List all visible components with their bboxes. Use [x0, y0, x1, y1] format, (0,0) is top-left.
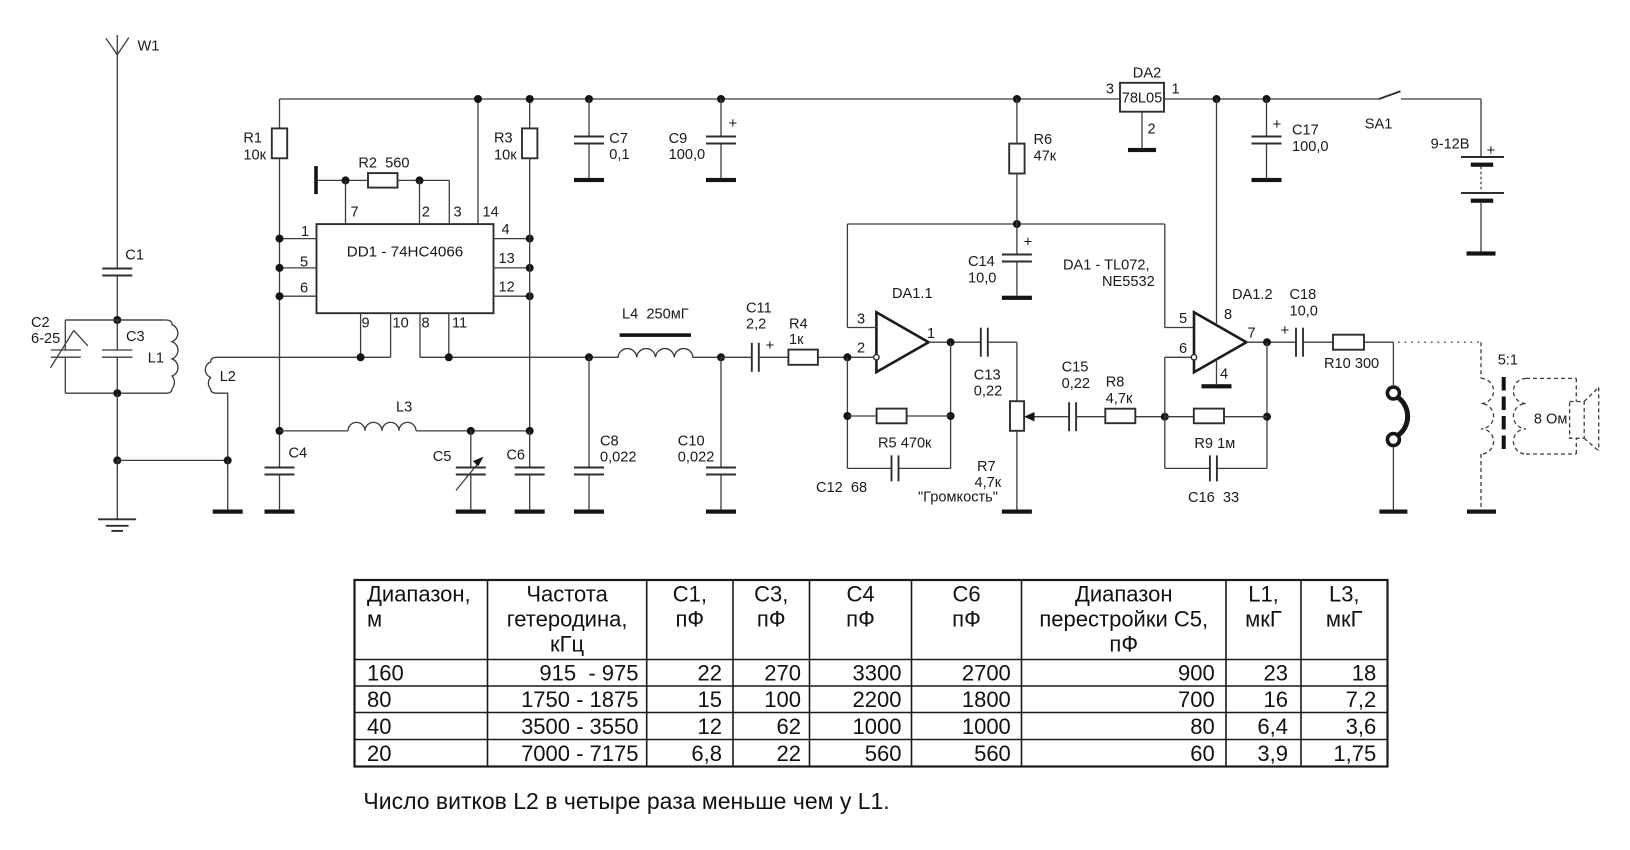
- svg-text:700: 700: [1178, 687, 1215, 712]
- svg-text:3: 3: [454, 205, 462, 221]
- junction bias C14: [1013, 220, 1021, 228]
- svg-text:0,1: 0,1: [609, 147, 629, 163]
- wire R1 top: [279, 99, 281, 128]
- svg-text:C2: C2: [31, 315, 50, 331]
- svg-text:5:1: 5:1: [1498, 353, 1518, 369]
- ground bar (L2): [213, 510, 243, 514]
- svg-text:мкГ: мкГ: [1245, 607, 1282, 632]
- wire C16 row: [1164, 417, 1166, 469]
- svg-text:100,0: 100,0: [669, 147, 706, 163]
- svg-text:Частота: Частота: [526, 582, 608, 607]
- svg-text:3500 - 3550: 3500 - 3550: [521, 714, 638, 739]
- ground bar (C8): [574, 510, 604, 514]
- svg-text:C12 68: C12 68: [816, 480, 867, 496]
- capacitor C12: [891, 455, 893, 481]
- node tank bottom: [113, 389, 121, 397]
- speaker BA1 8 Ом: [1570, 387, 1599, 451]
- table header: [367, 582, 1363, 657]
- wire pin 10: [390, 313, 392, 357]
- svg-text:80: 80: [1190, 714, 1214, 739]
- svg-text:9-12В: 9-12В: [1431, 137, 1470, 153]
- svg-text:2: 2: [1148, 122, 1156, 138]
- svg-text:40: 40: [367, 714, 391, 739]
- capacitor C8: [574, 357, 604, 509]
- table grid: [355, 580, 1388, 767]
- svg-text:C7: C7: [609, 131, 628, 147]
- wire pin 5: [280, 267, 317, 269]
- svg-text:+: +: [766, 337, 775, 354]
- svg-text:L3,: L3,: [1329, 582, 1360, 607]
- svg-text:R9 1м: R9 1м: [1194, 436, 1235, 452]
- svg-text:900: 900: [1178, 661, 1215, 686]
- svg-text:С6: С6: [952, 582, 980, 607]
- svg-text:270: 270: [764, 661, 801, 686]
- resistor R2: [368, 173, 398, 188]
- ground bar (C4): [265, 510, 295, 514]
- junction DA1.2 inv node: [1161, 413, 1169, 421]
- wire tank to ground row: [116, 393, 118, 460]
- junction R9 right: [1263, 413, 1271, 421]
- svg-text:Диапазон: Диапазон: [1075, 582, 1173, 607]
- svg-text:5: 5: [1179, 311, 1187, 327]
- svg-text:560: 560: [865, 741, 902, 766]
- wire pin 1: [280, 238, 317, 240]
- resistor R4: [788, 350, 818, 365]
- svg-text:C13: C13: [974, 368, 1001, 384]
- resistor R9: [1194, 409, 1224, 424]
- inductor L4: [589, 349, 721, 358]
- ground bar (battery): [1467, 251, 1496, 255]
- svg-text:2,2: 2,2: [746, 317, 766, 333]
- junction rail R6: [1013, 95, 1021, 103]
- wire inv node down: [846, 357, 848, 468]
- wire C11 to R4: [759, 356, 789, 358]
- svg-text:8: 8: [1224, 307, 1232, 323]
- wire bias to pin3: [846, 224, 848, 328]
- capacitor C15: [1068, 402, 1070, 431]
- wire antenna earth drop: [116, 460, 118, 519]
- ground bar (transformer): [1467, 510, 1496, 514]
- svg-text:C10: C10: [678, 434, 705, 450]
- capacitor C5 (variable): [456, 431, 486, 510]
- svg-text:R1: R1: [243, 130, 262, 146]
- svg-text:4: 4: [502, 222, 510, 238]
- junction pin4: [526, 235, 534, 243]
- ground bar (C10): [706, 510, 736, 514]
- antenna W1: [106, 35, 129, 269]
- wire DA2 pin2: [1141, 112, 1143, 148]
- inductor L1: [65, 320, 178, 393]
- svg-text:62: 62: [777, 714, 801, 739]
- junction C8: [585, 353, 593, 361]
- op-amp DA1.1: [876, 312, 928, 372]
- svg-text:0,022: 0,022: [678, 450, 715, 466]
- capacitor C3: [102, 320, 132, 393]
- inductor L2: [205, 357, 360, 460]
- svg-text:DA1.2: DA1.2: [1232, 287, 1273, 303]
- svg-text:гетеродина,: гетеродина,: [507, 607, 628, 632]
- ground bar (C7): [574, 178, 604, 182]
- svg-text:DA1 - TL072,: DA1 - TL072,: [1063, 258, 1150, 274]
- svg-text:1: 1: [927, 326, 935, 342]
- svg-text:4: 4: [1220, 367, 1228, 383]
- wire C4 to L3: [280, 430, 349, 432]
- svg-text:16: 16: [1264, 687, 1288, 712]
- svg-text:кГц: кГц: [550, 632, 585, 657]
- resistor R3: [522, 128, 537, 158]
- junction C10: [717, 353, 725, 361]
- wire R8 to node: [1135, 416, 1165, 418]
- junction pin9: [357, 353, 365, 361]
- svg-text:22: 22: [698, 661, 722, 686]
- wire out down: [950, 342, 952, 468]
- svg-text:6: 6: [300, 281, 308, 297]
- svg-text:R6: R6: [1034, 132, 1053, 148]
- svg-text:0,22: 0,22: [974, 384, 1002, 400]
- op-amp DA1.2: [1194, 312, 1246, 372]
- wire pin 13: [494, 267, 530, 269]
- svg-text:1: 1: [301, 224, 309, 240]
- svg-text:С4: С4: [846, 582, 874, 607]
- svg-text:пФ: пФ: [1109, 632, 1138, 657]
- svg-text:3: 3: [1106, 81, 1114, 97]
- svg-text:L1,: L1,: [1248, 582, 1279, 607]
- svg-text:пФ: пФ: [676, 607, 705, 632]
- ground bar (DA2): [1128, 148, 1156, 152]
- transformer T1 primary: [1481, 342, 1494, 509]
- svg-text:1000: 1000: [962, 714, 1011, 739]
- svg-text:6: 6: [1179, 341, 1187, 357]
- svg-text:6,4: 6,4: [1257, 714, 1288, 739]
- junction pin11: [445, 353, 453, 361]
- wire pin 11: [448, 313, 450, 357]
- svg-text:пФ: пФ: [846, 607, 875, 632]
- earth ground (antenna): [98, 519, 136, 531]
- svg-text:160: 160: [367, 661, 404, 686]
- svg-text:9: 9: [362, 316, 370, 332]
- svg-text:14: 14: [483, 205, 499, 221]
- wire R5 row: [847, 415, 876, 417]
- ground bar (C5): [456, 510, 486, 514]
- svg-text:L4 250мГ: L4 250мГ: [622, 307, 689, 323]
- wire L2 top segment: [361, 356, 391, 358]
- svg-text:C1: C1: [125, 248, 144, 264]
- capacitor C11 (electrolytic): [751, 343, 753, 372]
- junction DA1.1 out: [947, 338, 955, 346]
- svg-text:L1: L1: [148, 350, 164, 366]
- junction rail pin8: [1213, 95, 1221, 103]
- capacitor C2 (trimmer): [51, 320, 88, 393]
- svg-text:80: 80: [367, 687, 391, 712]
- wire bias line: [847, 223, 1164, 225]
- inverting input circle DA1.1: [874, 355, 879, 360]
- svg-text:R10 300: R10 300: [1324, 356, 1379, 372]
- svg-text:1к: 1к: [789, 332, 804, 348]
- wire R4 to pin2 node: [818, 356, 874, 358]
- svg-text:C16 33: C16 33: [1188, 490, 1239, 506]
- inductor L3: [348, 422, 416, 431]
- junction DA1.2 out: [1263, 338, 1271, 346]
- svg-text:C17: C17: [1292, 123, 1319, 139]
- capacitor C9 (electrolytic): [706, 99, 736, 178]
- svg-text:100,0: 100,0: [1292, 139, 1329, 155]
- svg-text:1800: 1800: [962, 687, 1011, 712]
- capacitor C14 (electrolytic): [1002, 224, 1032, 296]
- wire R6 top: [1016, 99, 1018, 144]
- capacitor C10: [706, 357, 736, 509]
- svg-text:DA2: DA2: [1133, 66, 1161, 82]
- svg-text:13: 13: [499, 251, 515, 267]
- svg-text:12: 12: [698, 714, 722, 739]
- junction pin13: [526, 264, 534, 272]
- junction rail C7: [585, 95, 593, 103]
- svg-text:+: +: [1487, 142, 1496, 159]
- ground bar (phone): [1379, 510, 1407, 514]
- wire DA1.1 output: [929, 341, 981, 343]
- wire pin8 DA1.2: [1216, 99, 1218, 325]
- wire ground row: [117, 459, 227, 461]
- junction DA1.1 inverting input node: [843, 353, 851, 361]
- junction pin5: [276, 264, 284, 272]
- svg-text:6,8: 6,8: [691, 741, 722, 766]
- svg-text:C15: C15: [1062, 360, 1089, 376]
- svg-text:C8: C8: [600, 434, 619, 450]
- svg-text:10,0: 10,0: [1290, 304, 1318, 320]
- svg-text:+: +: [729, 115, 738, 132]
- wire L3 to C6: [416, 430, 530, 432]
- capacitor C17 (electrolytic): [1252, 99, 1282, 178]
- svg-text:+: +: [1281, 322, 1290, 339]
- wire +9V rail: [280, 98, 1121, 100]
- wire pin14 vertical: [477, 99, 479, 224]
- ground bar (C14): [1002, 296, 1032, 300]
- ground bar (DA1.2 pin4): [1202, 384, 1232, 388]
- wire pin3 vertical: [448, 180, 450, 224]
- svg-text:2: 2: [422, 205, 430, 221]
- svg-text:22: 22: [777, 741, 801, 766]
- wire pin 12: [494, 295, 530, 297]
- junction rail C9: [717, 95, 725, 103]
- svg-text:R7: R7: [977, 459, 996, 475]
- junction rail pin14: [474, 95, 482, 103]
- capacitor C6: [515, 431, 545, 510]
- resistor R6: [1009, 144, 1024, 174]
- wiper arrow R7: [1024, 412, 1034, 421]
- svg-text:7: 7: [351, 205, 359, 221]
- IC DD1 74HC4066: [317, 224, 494, 313]
- node tank top (C3 junction): [113, 316, 121, 324]
- capacitor C18 (electrolytic): [1295, 328, 1297, 357]
- terminal bar (R2 left): [314, 166, 318, 194]
- svg-text:DD1 - 74HC4066: DD1 - 74HC4066: [347, 244, 464, 261]
- svg-text:R2 560: R2 560: [358, 155, 409, 171]
- svg-text:100: 100: [764, 687, 801, 712]
- svg-text:R5 470к: R5 470к: [878, 436, 932, 452]
- wire out2 down: [1266, 342, 1268, 468]
- svg-text:м: м: [367, 607, 382, 632]
- junction C6: [526, 427, 534, 435]
- svg-text:1000: 1000: [853, 714, 902, 739]
- svg-text:DA1.1: DA1.1: [892, 286, 933, 302]
- svg-text:R8: R8: [1106, 375, 1125, 391]
- svg-text:+: +: [1273, 116, 1282, 133]
- svg-text:Число витков L2 в четыре раза: Число витков L2 в четыре раза меньше чем…: [363, 788, 889, 814]
- svg-text:С1,: С1,: [673, 582, 707, 607]
- svg-text:1,75: 1,75: [1333, 741, 1376, 766]
- capacitor C4: [265, 431, 295, 510]
- potentiometer R7: [1010, 401, 1024, 431]
- junction R5 left: [843, 412, 851, 420]
- svg-text:С3,: С3,: [754, 582, 788, 607]
- wire dotted to transformer: [1398, 341, 1481, 343]
- wire R10 right: [1364, 341, 1393, 343]
- svg-text:1750 - 1875: 1750 - 1875: [521, 687, 638, 712]
- svg-text:1: 1: [1172, 81, 1180, 97]
- svg-text:+: +: [1024, 234, 1033, 251]
- resistor R1: [272, 128, 287, 158]
- junction pin12: [526, 292, 534, 300]
- svg-text:3,9: 3,9: [1257, 741, 1288, 766]
- resistor R5: [877, 409, 907, 424]
- ground bar (C17): [1252, 178, 1282, 182]
- wire R9 row: [1165, 416, 1194, 418]
- ground bar (R7): [1002, 510, 1032, 514]
- phone BF1: [1387, 387, 1407, 446]
- svg-text:2: 2: [857, 341, 865, 357]
- svg-text:3: 3: [857, 312, 865, 328]
- transformer T1 secondary: [1513, 378, 1526, 454]
- wire pin 8: [419, 313, 421, 357]
- junction ground row left: [113, 456, 121, 464]
- svg-text:C4: C4: [289, 446, 308, 462]
- junction C5: [467, 427, 475, 435]
- wire switch to battery: [1401, 98, 1481, 100]
- junction pin6: [276, 292, 284, 300]
- wire C12 row: [847, 467, 891, 469]
- svg-text:C6: C6: [506, 448, 525, 464]
- svg-text:10,0: 10,0: [968, 271, 996, 287]
- svg-text:C18: C18: [1290, 287, 1317, 303]
- wire pin 4: [494, 238, 530, 240]
- capacitor C1: [102, 269, 132, 321]
- svg-text:7,2: 7,2: [1346, 687, 1377, 712]
- wire pin4 DA1.2: [1216, 360, 1218, 385]
- junction rail C17: [1263, 95, 1271, 103]
- svg-text:2200: 2200: [853, 687, 902, 712]
- svg-text:R4: R4: [789, 317, 808, 333]
- wire inv to pin6: [1164, 357, 1166, 416]
- svg-text:560: 560: [974, 741, 1011, 766]
- svg-text:10: 10: [393, 316, 409, 332]
- svg-text:23: 23: [1264, 661, 1288, 686]
- svg-text:915 - 975: 915 - 975: [539, 661, 638, 686]
- capacitor C16: [1209, 455, 1211, 481]
- transformer core: [1502, 377, 1506, 450]
- svg-text:C5: C5: [433, 449, 452, 465]
- junction R5 right: [947, 412, 955, 420]
- svg-text:R3: R3: [494, 130, 513, 146]
- svg-text:15: 15: [698, 687, 722, 712]
- resistor R8: [1105, 409, 1135, 424]
- svg-text:C14: C14: [968, 254, 995, 270]
- wire pin2 vertical: [419, 180, 421, 224]
- svg-text:C3: C3: [126, 329, 145, 345]
- junction pin1: [276, 235, 284, 243]
- junction rail R3: [526, 95, 534, 103]
- svg-text:47к: 47к: [1034, 149, 1057, 165]
- svg-text:78L05: 78L05: [1122, 90, 1163, 106]
- wire pin 6: [280, 295, 317, 297]
- junction C4/L3: [276, 427, 284, 435]
- wire R3 bus: [529, 99, 531, 128]
- wire bias to pin5: [1164, 224, 1166, 328]
- ground bar (C9): [706, 178, 736, 182]
- svg-text:7000 - 7175: 7000 - 7175: [521, 741, 638, 766]
- wire R6 bottom: [1016, 174, 1018, 225]
- wire L2 bottom to ground: [227, 460, 229, 509]
- core bar L4: [620, 333, 691, 337]
- svg-text:C9: C9: [669, 131, 688, 147]
- wire C13 to R7: [988, 341, 1017, 343]
- svg-text:2700: 2700: [962, 661, 1011, 686]
- svg-text:8: 8: [422, 316, 430, 332]
- svg-text:пФ: пФ: [952, 607, 981, 632]
- svg-text:20: 20: [367, 741, 391, 766]
- voltage regulator DA2 78L05: [1120, 83, 1164, 112]
- svg-text:11: 11: [452, 316, 467, 332]
- junction pin7 drop: [342, 176, 350, 184]
- svg-text:7: 7: [1248, 326, 1256, 342]
- svg-text:3300: 3300: [853, 661, 902, 686]
- wire secondary to speaker: [1526, 378, 1576, 454]
- svg-text:0,022: 0,022: [600, 450, 637, 466]
- svg-text:Диапазон,: Диапазон,: [367, 582, 471, 607]
- junction ground row right: [224, 456, 232, 464]
- svg-text:12: 12: [499, 280, 515, 296]
- wire DA1.2 output: [1246, 341, 1296, 343]
- wire R7 bottom: [1016, 431, 1018, 510]
- wire pin7 vertical: [345, 180, 347, 224]
- svg-text:8 Ом: 8 Ом: [1534, 412, 1568, 428]
- wire bar to R2: [318, 179, 368, 181]
- wire R1 bottom bus: [279, 158, 281, 431]
- svg-text:10к: 10к: [494, 148, 517, 164]
- switch SA1: [1379, 91, 1400, 99]
- svg-text:NE5532: NE5532: [1102, 274, 1155, 290]
- svg-text:0,22: 0,22: [1062, 376, 1090, 392]
- wire pin 9: [360, 313, 362, 357]
- svg-text:"Громкость": "Громкость": [918, 490, 998, 506]
- svg-text:6-25: 6-25: [31, 331, 60, 347]
- wire C15 to R8: [1076, 416, 1105, 418]
- capacitor C13: [980, 328, 982, 357]
- svg-text:3,6: 3,6: [1346, 714, 1377, 739]
- wire tank top: [65, 319, 163, 321]
- inverting input circle DA1.2: [1191, 355, 1196, 360]
- svg-text:пФ: пФ: [757, 607, 786, 632]
- wire R2 right: [398, 179, 450, 181]
- ground bar (C6): [515, 510, 545, 514]
- svg-text:18: 18: [1352, 661, 1376, 686]
- svg-text:C11: C11: [746, 301, 772, 317]
- svg-text:L2: L2: [220, 369, 236, 385]
- wire C18 to R10: [1303, 341, 1333, 343]
- resistor R10: [1333, 335, 1364, 350]
- svg-text:мкГ: мкГ: [1326, 607, 1363, 632]
- svg-text:W1: W1: [138, 39, 160, 55]
- table data: [367, 661, 1376, 766]
- svg-text:4,7к: 4,7к: [1106, 391, 1133, 407]
